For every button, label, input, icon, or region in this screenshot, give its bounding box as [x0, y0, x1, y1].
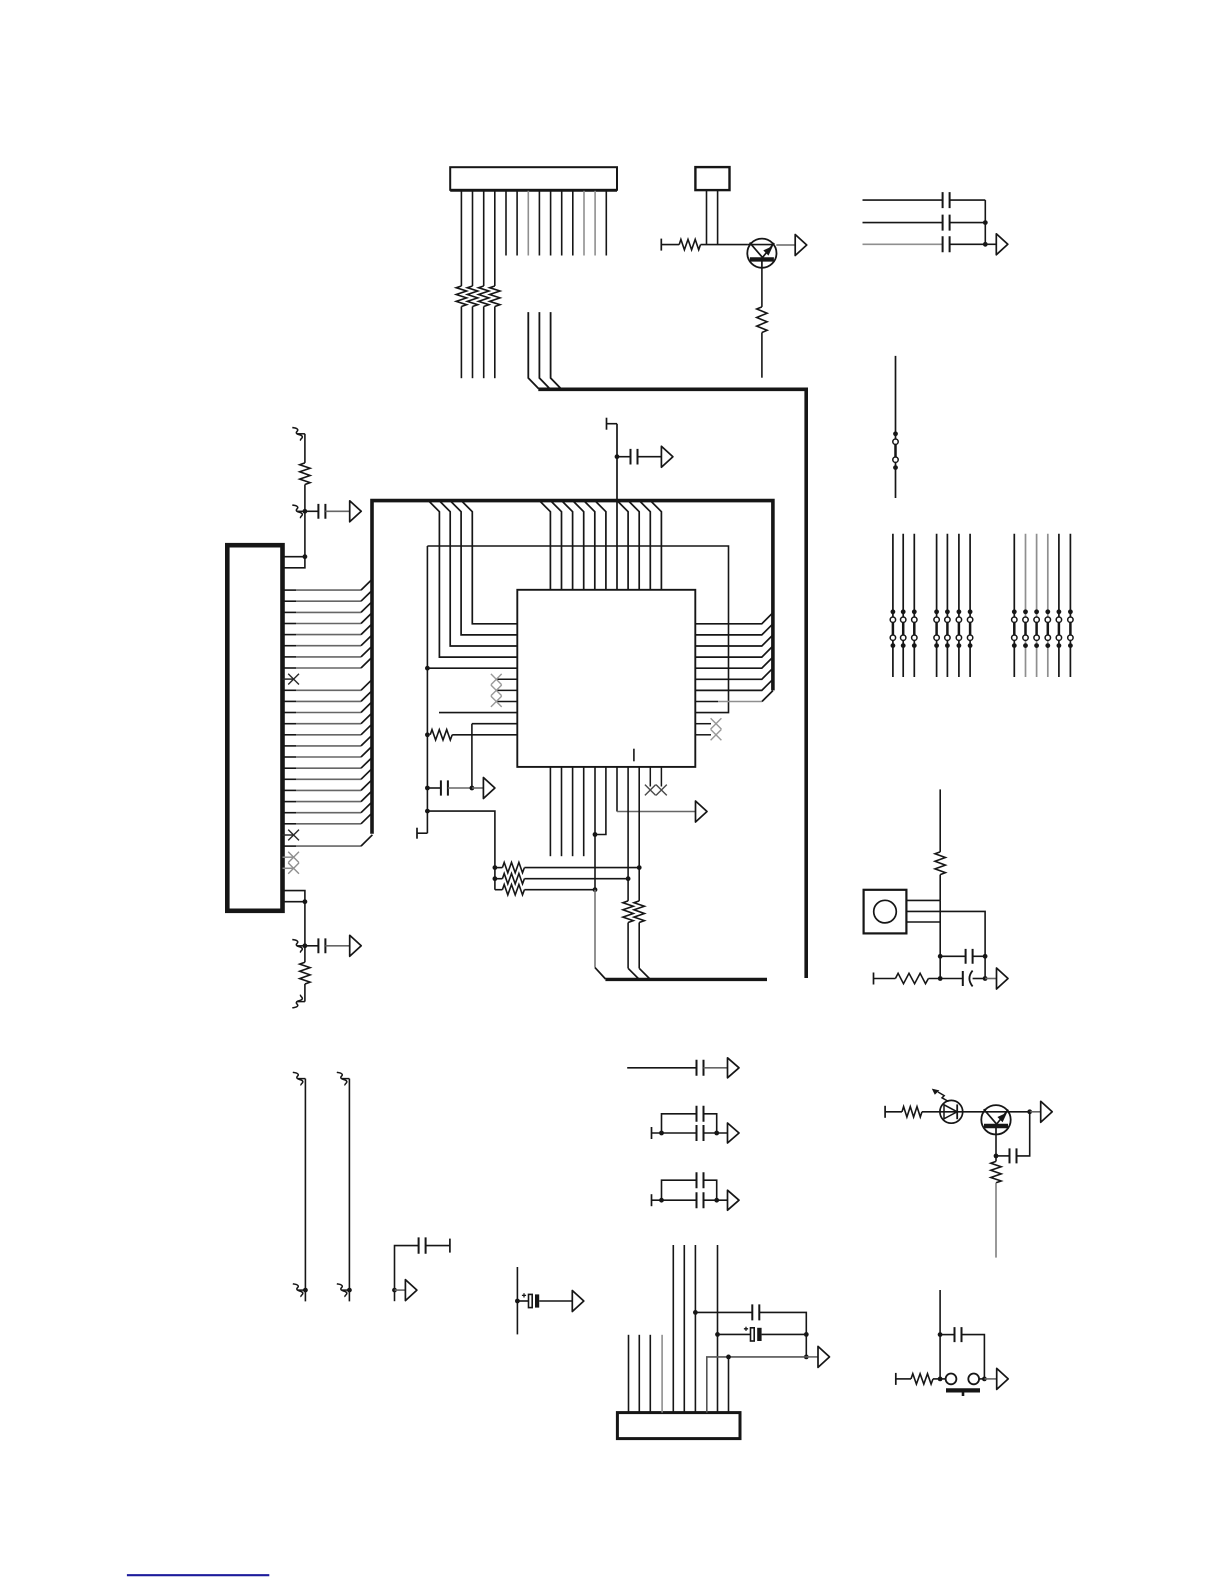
node cap row: [425, 786, 430, 791]
resistor R14: [638, 868, 640, 901]
node r1l: [493, 865, 498, 870]
wire U1 right nc row10: [695, 723, 711, 725]
no-connect X k25: [288, 830, 299, 841]
wire U1 top pin 2: [551, 501, 562, 590]
arrow out1: [795, 235, 807, 256]
wire sw net: [939, 1290, 941, 1379]
node ec: [515, 1299, 520, 1304]
wire U2 pin1: [706, 190, 708, 245]
wire J3 pin s2: [638, 1335, 640, 1413]
wire R6 lower: [761, 333, 763, 378]
wire U1 top pin 11: [650, 501, 661, 590]
capacitor C1: [943, 192, 950, 208]
wire Q2 emitter: [995, 1134, 997, 1156]
wire U1 right row8: [695, 701, 718, 703]
node j3b: [715, 1332, 720, 1337]
wire J2 pin k13: [283, 700, 297, 702]
wire U1 top pin 7: [616, 424, 618, 590]
arrow out14: [728, 1190, 740, 1210]
wire U1 bottom pin5: [594, 767, 596, 890]
resistor R15: [935, 852, 945, 875]
capacitor C16 upper: [697, 1172, 704, 1188]
wire J2 pin k21: [283, 789, 297, 791]
jumper JA5: [946, 622, 949, 635]
wire J2 pin k14: [283, 712, 297, 714]
capacitor C11: [419, 1237, 426, 1253]
wire U1 bottom pin10: [649, 767, 651, 787]
no-connect X k11: [288, 674, 299, 685]
jumper JA6: [958, 622, 961, 635]
wire J1 pin14: [605, 191, 607, 256]
wire column A3: [913, 534, 915, 677]
node r3r: [593, 887, 598, 892]
wire join vertical: [984, 200, 986, 244]
wire osc net: [939, 900, 941, 978]
node o2: [938, 976, 943, 981]
node o3: [983, 954, 988, 959]
wire J1 pin13: [594, 191, 596, 256]
off-page squiggle S1: [292, 428, 302, 441]
wire J2 pin k23: [283, 812, 297, 814]
wire J2 pin k15: [283, 723, 297, 725]
arrow out5: [661, 446, 673, 467]
wire U1 right row6 bus entry: [695, 668, 773, 679]
wire from J2 bottom: [304, 902, 306, 946]
node o1: [938, 954, 943, 959]
node r2l: [493, 876, 498, 881]
wire U1 left row9: [439, 712, 517, 714]
light arrow: [938, 1092, 949, 1102]
wire U1 left row5: [427, 667, 517, 669]
wire J2 pin k7: [283, 634, 297, 636]
wire U1 left nc row 7: [496, 689, 517, 691]
photodiode D1: [940, 1100, 963, 1123]
wire bus entry to U1 left row y623.8: [461, 501, 517, 624]
no-connect X left 7: [491, 685, 502, 696]
wire R4 lower: [494, 307, 496, 379]
wire J2 nc pin k28: [283, 867, 294, 869]
jumper JB3: [1035, 622, 1038, 635]
transistor Q1: [747, 239, 776, 268]
arrow out3: [350, 501, 362, 522]
wire J1 pin9: [550, 191, 552, 256]
resistor R7: [300, 463, 310, 485]
node j3c: [804, 1332, 809, 1337]
wire stub: [607, 423, 618, 425]
wire J2 pin k18: [283, 756, 297, 758]
wire bus entry to U1 left row y646.0: [439, 501, 517, 646]
wire J3 pin s4: [661, 1335, 663, 1413]
wire Y1 pin3: [906, 921, 940, 923]
capacitor C20: [940, 1334, 954, 1336]
no-connect X right 11: [711, 729, 722, 740]
wire U2 pin2: [717, 190, 719, 245]
capacitor C6: [617, 456, 631, 458]
jumper JB6: [1069, 622, 1072, 635]
off-page squiggle T2 top: [337, 1072, 347, 1085]
capacitor C4: [305, 510, 319, 512]
wire J2 pin k24: [283, 823, 297, 825]
node j3d: [804, 1355, 809, 1360]
node t1: [303, 1288, 308, 1293]
node b1: [425, 666, 430, 671]
wire R3 lower: [483, 307, 485, 379]
wire J2 pin k16: [283, 734, 297, 736]
node g2b: [714, 1131, 719, 1136]
wire bus strand 2: [539, 312, 549, 389]
wire J3 pin s1: [628, 1335, 630, 1413]
arrow out15: [818, 1346, 830, 1367]
wire column A1: [892, 534, 894, 677]
capacitor C14 upper: [697, 1106, 704, 1122]
wire J1 pin11: [572, 191, 574, 256]
wire U1 right row5 bus entry: [695, 657, 773, 668]
wire bus strand 3: [551, 312, 561, 389]
arrow out7: [696, 801, 708, 822]
wire out row: [707, 1357, 807, 1413]
mark inside U1: [633, 749, 635, 762]
jumper JB5: [1058, 622, 1061, 635]
capacitor C5: [305, 945, 319, 947]
wire U1 right row7 bus entry: [695, 679, 773, 690]
no-connect X right 10: [711, 718, 722, 729]
off-page squiggle T1 bottom: [293, 1284, 303, 1297]
wire J2 pin last entry: [283, 845, 297, 847]
connector J3: [617, 1413, 740, 1439]
wire j3e down: [728, 1357, 730, 1413]
wire J2 pin k20: [283, 778, 297, 780]
wire branch vertical: [471, 724, 473, 788]
wire J1 pin2: [472, 191, 474, 286]
jumper JA2: [902, 622, 905, 635]
arrow out16: [997, 1368, 1009, 1389]
no-connect X left 8: [491, 696, 502, 707]
bus A bottom: [605, 978, 767, 981]
resistor R6: [757, 307, 767, 333]
resistor R16: [895, 973, 928, 983]
connector J2: [227, 545, 282, 911]
wire J1 pin12: [583, 191, 585, 256]
wire bus entry to U1 left row y634.9: [450, 501, 517, 635]
wire g1: [627, 1067, 696, 1069]
wire J3 pin t4: [717, 1245, 719, 1413]
connector J1: [450, 167, 617, 190]
wire column B6: [1069, 534, 1071, 677]
wire U1 top pin 8: [617, 501, 628, 590]
wire column B5: [1058, 534, 1060, 677]
wire U1 bottom pin7: [616, 767, 618, 812]
resistor R2: [467, 286, 477, 307]
small box U2: [695, 167, 729, 190]
wire U1 top pin 9: [628, 501, 639, 590]
node s1: [938, 1332, 943, 1337]
wire J1 pin7: [527, 191, 529, 256]
node base wire: [660, 239, 662, 251]
off-page squiggle S3: [292, 940, 302, 953]
wire left bias vertical: [426, 546, 428, 833]
node j2: [983, 242, 988, 247]
capacitor C17 lower: [697, 1192, 704, 1208]
ground stub: [417, 832, 427, 834]
wire elco cell: [516, 1267, 518, 1334]
resistor R4: [490, 286, 500, 307]
ground stub photo: [884, 1106, 886, 1118]
wire U1 right row3 bus entry: [695, 635, 773, 646]
arrow out6: [483, 778, 495, 799]
capacitor C19 electrolytic: [718, 1333, 751, 1335]
resistor R17: [902, 1107, 922, 1117]
wire bus entry to U1 left row y657.1: [428, 501, 517, 657]
wire feedback: [1017, 1112, 1030, 1156]
wire osc net2: [984, 956, 986, 978]
wire column A5: [946, 534, 948, 677]
wire U1 bottom pin11: [660, 767, 662, 787]
wire Y1 pin1: [906, 899, 940, 901]
wire J2 pin k6: [283, 623, 297, 625]
wire J1 pin4: [494, 191, 496, 286]
resistor R9: [430, 730, 452, 740]
wire Q1 out: [776, 244, 795, 246]
oscillator Y1: [864, 890, 907, 934]
wire U1 bottom pin6: [595, 767, 606, 835]
node b2: [425, 732, 430, 737]
wire J3 pin t3: [694, 1245, 696, 1413]
footer rule: [127, 1574, 269, 1576]
arrow out8: [997, 968, 1009, 989]
capacitor C18 row: [695, 1311, 752, 1313]
wire J1 pin3: [483, 191, 485, 286]
jumper JP1: [894, 444, 897, 457]
arrow out10: [405, 1280, 417, 1301]
node r1r: [637, 865, 642, 870]
node o4: [983, 976, 988, 981]
wire R1 lower: [460, 307, 462, 379]
wire J2 pin k4: [283, 600, 297, 602]
no-connect X b10: [645, 785, 656, 796]
capacitor C8: [940, 955, 965, 957]
capacitor C13: [697, 1060, 704, 1076]
wire U1 top pin 5: [584, 501, 595, 590]
node j3a: [693, 1310, 698, 1315]
wire R2 lower: [472, 307, 474, 379]
wire g2 branch: [662, 1114, 697, 1133]
jumper JA3: [913, 622, 916, 635]
capacitor C15 lower: [697, 1125, 704, 1141]
wire U1 left nc row 6: [496, 678, 517, 680]
wire J2 nc pin k25: [283, 834, 294, 836]
wire J2 nc pin k27: [283, 856, 294, 858]
IC U1: [517, 590, 695, 767]
wire lower: [304, 984, 306, 1002]
wire to resistor bank: [427, 811, 495, 890]
wire to Q1: [701, 244, 748, 246]
wire g3 branch: [662, 1180, 697, 1200]
node j3e: [726, 1355, 731, 1360]
wire J1 pin10: [561, 191, 563, 256]
jumper JA7: [969, 622, 972, 635]
off-page squiggle S4: [292, 995, 302, 1008]
wire column A6: [958, 534, 960, 677]
wire J2 pin k19: [283, 767, 297, 769]
no-connect X k27: [288, 852, 299, 863]
wire U1 right row4 bus entry: [695, 646, 773, 657]
wire J2 pin k17: [283, 745, 297, 747]
node b4: [425, 809, 430, 814]
node q2c: [1027, 1109, 1032, 1114]
off-page squiggle S2: [292, 505, 302, 518]
wire U1 left nc row 8: [496, 701, 517, 703]
wire J1 pin1: [460, 191, 462, 286]
capacitor C7: [427, 787, 441, 789]
wire U1 top pin 1: [539, 501, 550, 590]
wire cap row 2: [863, 222, 943, 224]
wire W1 loop: [427, 546, 728, 713]
wire bus strand 1: [528, 312, 538, 389]
off-page squiggle T1 top: [293, 1072, 303, 1085]
capacitor C9 polarized: [962, 971, 964, 986]
wire cap row 1: [863, 199, 943, 201]
wire column A2: [902, 534, 904, 677]
wire R9 to U1: [452, 734, 517, 736]
wire J2 pins bottom join: [283, 891, 305, 902]
arrow out12: [728, 1058, 740, 1078]
wire U1 right row2 bus entry: [695, 624, 773, 635]
wire U1 bottom pin4: [583, 767, 585, 856]
wire column B4: [1047, 534, 1049, 677]
jumper JB4: [1047, 622, 1050, 635]
bus B: [372, 501, 773, 834]
resistor R13: [627, 879, 629, 901]
wire p5 lower: [594, 890, 596, 968]
wire U1 right nc row11: [695, 734, 711, 736]
arrow out9: [1041, 1101, 1053, 1122]
resistor R12: [495, 889, 503, 891]
jumper JB1: [1013, 622, 1016, 635]
wire J3 pin t2: [683, 1245, 685, 1413]
node pinb: [303, 899, 308, 904]
node t2: [347, 1288, 352, 1293]
off-page squiggle T2 bottom: [337, 1284, 347, 1297]
arrow out11: [572, 1291, 584, 1312]
wire tall 1: [304, 1079, 306, 1302]
node r2r: [626, 876, 631, 881]
resistor R10: [495, 867, 503, 869]
node p5: [593, 832, 598, 837]
wire R18 lower: [995, 1183, 997, 1258]
node N1: [303, 509, 308, 514]
wire column B2: [1025, 534, 1027, 677]
wire J1 pin6: [516, 191, 518, 256]
node s2: [982, 1377, 987, 1382]
resistor R1: [456, 286, 466, 307]
wire J2 pin k5: [283, 611, 297, 613]
wire U1 top pin 3: [562, 501, 573, 590]
node g2a: [659, 1131, 664, 1136]
wire J2 pin k12: [283, 689, 297, 691]
wire J2 pins 1-2 join: [283, 557, 305, 568]
resistor R11: [495, 878, 503, 880]
wire R15 lower: [939, 875, 941, 901]
capacitor C10: [1010, 1148, 1017, 1163]
wire J2 pin k9: [283, 656, 297, 658]
no-connect X k28: [288, 863, 299, 874]
wire J2 pin k8: [283, 645, 297, 647]
wire J3 pin t1: [672, 1245, 674, 1413]
wire cap row 3: [863, 243, 943, 245]
ground stub osc: [873, 973, 875, 985]
wire J1 pin5: [505, 191, 507, 256]
wire jumper line: [895, 356, 897, 498]
wire J2 pin k22: [283, 801, 297, 803]
wire U1 left row10: [472, 723, 517, 725]
node b3: [470, 786, 475, 791]
resistor R18: [995, 1156, 997, 1162]
transistor Q2: [981, 1105, 1010, 1134]
wire g2 main: [651, 1127, 653, 1139]
wire U1 top pin 6: [595, 501, 606, 590]
wire J1 pin8: [538, 191, 540, 256]
wire D1 to Q2: [962, 1111, 1030, 1113]
wire U1 bottom pin2: [561, 767, 563, 856]
node C6 node: [615, 454, 620, 459]
wire g3 main: [651, 1194, 653, 1206]
node s3: [938, 1377, 943, 1382]
wire U1 bottom pin3: [572, 767, 574, 856]
wire J2 nc pin k11: [283, 678, 294, 680]
wire tall 2: [348, 1079, 350, 1302]
wire Y1 pin2: [906, 911, 985, 956]
wire column A4: [936, 534, 938, 677]
node j1: [983, 220, 988, 225]
wire U1 bottom pin1: [549, 767, 551, 856]
arrow out13: [728, 1123, 740, 1143]
resistor R8: [304, 946, 306, 963]
bus A top/right: [538, 389, 806, 978]
arrow out2: [996, 234, 1008, 255]
node g3a: [659, 1198, 664, 1203]
wire Q1 emitter: [761, 268, 763, 307]
jumper JA1: [892, 622, 895, 635]
wire column B3: [1036, 534, 1038, 677]
node cc: [392, 1288, 397, 1293]
arrow out4: [350, 935, 362, 956]
resistor R19: [911, 1374, 933, 1384]
wire upper: [304, 434, 306, 463]
wire U1 bottom pin8: [627, 767, 629, 879]
node N2: [303, 943, 308, 948]
ground stub sw: [895, 1373, 897, 1385]
capacitor C3: [943, 236, 950, 252]
no-connect X b11: [656, 785, 667, 796]
node pin1: [303, 554, 308, 559]
wire to node: [304, 485, 306, 557]
wire J2 pin k10: [283, 667, 297, 669]
wire cap cell: [395, 1246, 419, 1291]
jumper JB2: [1024, 622, 1027, 635]
resistor R5: [679, 239, 700, 249]
wire to C9: [928, 978, 962, 980]
wire column A7: [969, 534, 971, 677]
wire J3 pin s3: [649, 1335, 651, 1413]
wire U1 top pin 4: [573, 501, 584, 590]
wire U1 bottom pin9: [638, 767, 640, 868]
resistor R3: [479, 286, 489, 307]
wire R15 upper: [939, 789, 941, 852]
wire J2 pin k3: [283, 589, 297, 591]
node q2e: [994, 1154, 999, 1159]
wire column B1: [1013, 534, 1015, 677]
wire U1 top pin 10: [639, 501, 650, 590]
